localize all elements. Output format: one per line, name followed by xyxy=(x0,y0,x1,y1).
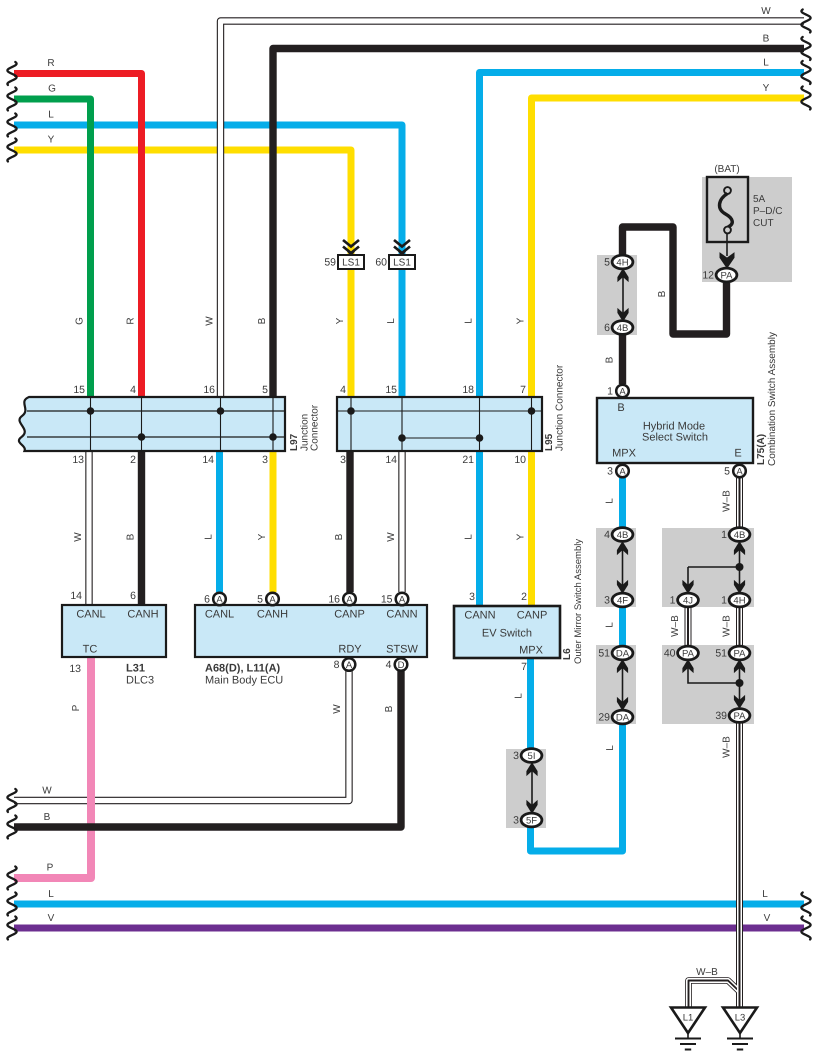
pin circle A Hybrid 3 xyxy=(616,465,629,478)
pin number L97 15 xyxy=(73,384,85,396)
svg-text:B: B xyxy=(126,533,137,540)
svg-text:V: V xyxy=(764,913,771,924)
side label L97 xyxy=(289,433,300,451)
svg-text:2: 2 xyxy=(521,591,527,603)
svg-text:W: W xyxy=(205,316,216,326)
component text ECU CANN xyxy=(386,609,417,621)
svg-text:5: 5 xyxy=(604,257,610,269)
svg-text:4F: 4F xyxy=(617,595,628,606)
svg-text:W: W xyxy=(42,786,52,797)
squiggle right V xyxy=(801,917,810,940)
squiggle left L bottom xyxy=(7,893,16,916)
L95 upper bus bar xyxy=(338,410,541,412)
svg-text:21: 21 xyxy=(462,454,474,466)
svg-text:STSW: STSW xyxy=(386,644,418,656)
connector 4J pin 1 xyxy=(678,593,699,607)
pin number PA 40 xyxy=(664,648,676,660)
wire W-B 4J 1 to PA 40 xyxy=(685,606,692,648)
label rotated L column xyxy=(386,318,397,324)
pin number 4J 1 xyxy=(670,595,676,607)
component label L31 xyxy=(126,663,145,675)
label wire R left xyxy=(47,58,54,69)
svg-text:W: W xyxy=(332,704,343,714)
link PA40-PA51 joint down to PA39 xyxy=(683,660,745,707)
component text ECU CANL xyxy=(205,609,234,621)
svg-text:MPX: MPX xyxy=(612,448,637,460)
connector LS1 59 xyxy=(338,240,364,269)
component Main Body ECU box xyxy=(195,605,427,657)
pin number ECU 4 xyxy=(386,659,392,671)
connector 4H pin 5 xyxy=(612,255,633,269)
label rotated W-B PA39 down xyxy=(722,736,733,758)
svg-text:3: 3 xyxy=(262,454,268,466)
label wire B right xyxy=(763,34,770,45)
svg-text:W–B: W–B xyxy=(722,490,733,512)
svg-text:1: 1 xyxy=(607,386,613,398)
label rotated L column below L95 xyxy=(464,534,475,540)
connector pair link DA-DA xyxy=(618,660,628,709)
svg-text:5A: 5A xyxy=(753,194,766,205)
svg-text:DA: DA xyxy=(616,648,630,659)
svg-text:16: 16 xyxy=(328,594,340,606)
L95 junction dot col 7 upper xyxy=(528,407,536,415)
fuse lead to PA 12 xyxy=(720,234,734,268)
wire W-B branch stripe xyxy=(689,981,740,1010)
label rotated L EV to 5I xyxy=(514,693,525,699)
pin circle A Hybrid 1 xyxy=(616,385,629,398)
svg-text:A: A xyxy=(346,660,353,671)
svg-text:LS1: LS1 xyxy=(342,258,360,269)
wire W white L95 pin 14 to ECU pin 15 xyxy=(398,451,405,592)
component text TC CANH xyxy=(127,609,158,621)
svg-text:13: 13 xyxy=(72,454,84,466)
svg-text:LS1: LS1 xyxy=(393,258,411,269)
wire Y yellow L97 pin 3 to ECU pin 5 xyxy=(270,451,277,592)
svg-text:6: 6 xyxy=(204,594,210,606)
svg-text:14: 14 xyxy=(385,454,397,466)
svg-text:CANL: CANL xyxy=(205,609,234,621)
svg-text:(BAT): (BAT) xyxy=(714,164,739,175)
svg-text:A68(D), L11(A): A68(D), L11(A) xyxy=(205,663,281,675)
L95 internal column 15-14 xyxy=(401,398,403,450)
pin number Hybrid 3 xyxy=(607,466,613,478)
label rotated W-B pin5 to 4B xyxy=(722,490,733,512)
svg-text:4: 4 xyxy=(386,659,392,671)
pin number L95 7 xyxy=(520,384,526,396)
L97 internal column 16-14 xyxy=(220,398,222,450)
wire P pink TC pin 13 down to left edge xyxy=(14,657,91,878)
pin number LS1 59 xyxy=(324,257,336,269)
svg-text:PA: PA xyxy=(734,648,747,659)
svg-text:Y: Y xyxy=(516,317,527,324)
L97 upper bus bar xyxy=(27,410,284,412)
label rotated B column xyxy=(257,317,268,324)
svg-text:3: 3 xyxy=(513,750,519,762)
wire L blue bottom full-width horizontal xyxy=(14,901,804,908)
label rotated Y column xyxy=(335,317,346,324)
wire W white top horizontal to L97 pin 16 xyxy=(221,21,805,397)
L97 junction dot col 15 upper xyxy=(87,407,95,415)
side label Combination Switch Assembly xyxy=(767,332,778,466)
label rotated W-B 4J to PA xyxy=(670,615,681,637)
junction connector L97 body xyxy=(19,397,285,451)
svg-text:B: B xyxy=(617,402,624,414)
svg-text:A: A xyxy=(619,386,626,397)
pin number ECU 16 xyxy=(328,594,340,606)
connector LS1 60 xyxy=(389,240,415,269)
svg-text:CUT: CUT xyxy=(753,218,774,229)
svg-text:W–B: W–B xyxy=(696,967,718,978)
wire W white ECU pin 8 RDY down to left edge xyxy=(14,671,349,801)
label wire Y left xyxy=(48,135,55,146)
label wire W bottom left xyxy=(42,786,52,797)
svg-text:CANP: CANP xyxy=(517,610,548,622)
svg-text:L75(A): L75(A) xyxy=(756,434,767,465)
svg-text:L1: L1 xyxy=(683,1013,694,1024)
label rotated B column below L95 xyxy=(334,533,345,540)
wire B black L95 pin 3 to ECU pin 16 xyxy=(346,451,353,592)
pin number ECU 5 xyxy=(257,594,263,606)
svg-text:59: 59 xyxy=(324,257,336,269)
pin number L95 15 xyxy=(385,384,397,396)
component Hybrid Mode Select Switch box xyxy=(597,398,753,463)
svg-text:A: A xyxy=(399,594,406,605)
pin number 4B 4 xyxy=(604,529,610,541)
connector 4B pin 1 xyxy=(729,528,750,542)
svg-text:3: 3 xyxy=(340,454,346,466)
L95 internal column 7-10 xyxy=(531,398,533,450)
component text Hybrid E xyxy=(734,448,741,460)
svg-text:L: L xyxy=(386,318,397,324)
pin number 4H 5 xyxy=(604,257,610,269)
svg-text:3: 3 xyxy=(469,591,475,603)
squiggle left B xyxy=(7,816,16,839)
label rotated B ECU STSW xyxy=(384,705,395,712)
squiggle right W xyxy=(801,10,810,33)
connector PA pin 51 xyxy=(729,646,750,660)
label fuse CUT xyxy=(753,218,774,229)
label fuse 5A xyxy=(753,194,766,205)
svg-text:B: B xyxy=(605,356,616,363)
svg-text:4B: 4B xyxy=(617,323,629,334)
pin number 4B 6 xyxy=(604,322,610,334)
svg-text:4B: 4B xyxy=(617,530,629,541)
pin number L97 4 xyxy=(130,384,136,396)
component text EV Switch xyxy=(482,628,532,640)
svg-text:4H: 4H xyxy=(616,257,628,268)
svg-text:A: A xyxy=(736,466,743,477)
svg-text:39: 39 xyxy=(715,710,727,722)
wire W white L97 pin 13 to TC pin 14 xyxy=(85,451,92,605)
pin number L97 5 xyxy=(262,384,268,396)
pin number L95 3 xyxy=(340,454,346,466)
side label L75(A) xyxy=(756,434,767,465)
svg-text:CANP: CANP xyxy=(334,609,365,621)
svg-text:16: 16 xyxy=(203,384,215,396)
label rotated B battery loop xyxy=(657,290,668,297)
pin circle A ECU 6 xyxy=(213,593,226,606)
pin number L97 2 xyxy=(130,454,136,466)
ground L1 xyxy=(671,1008,705,1050)
svg-text:1: 1 xyxy=(721,529,727,541)
wire V violet bottom full-width horizontal xyxy=(14,925,804,932)
side label L95 Junction Connector xyxy=(555,364,566,451)
svg-text:1: 1 xyxy=(721,595,727,607)
svg-text:W–B: W–B xyxy=(722,615,733,637)
svg-text:P: P xyxy=(47,863,54,874)
label wire L left xyxy=(48,110,54,121)
connector 5I pin 3 xyxy=(521,749,542,763)
svg-text:7: 7 xyxy=(520,384,526,396)
svg-text:L31: L31 xyxy=(126,663,145,675)
label BAT xyxy=(714,164,739,175)
pin number L97 14 xyxy=(202,454,214,466)
svg-text:R: R xyxy=(47,58,54,69)
svg-text:CANH: CANH xyxy=(127,609,158,621)
svg-text:L3: L3 xyxy=(735,1013,746,1024)
svg-text:L: L xyxy=(48,889,54,900)
svg-text:1: 1 xyxy=(670,595,676,607)
pin number 5I 3 xyxy=(513,750,519,762)
pin circle A ECU 16 xyxy=(343,593,356,606)
wire L blue L97 pin 14 to ECU pin 6 xyxy=(216,451,223,592)
wire Y yellow left horizontal to L95 pin 4 xyxy=(14,150,351,397)
svg-text:Y: Y xyxy=(257,533,268,540)
pin number Hybrid 5 xyxy=(724,466,730,478)
pin number DA 51 xyxy=(598,648,610,660)
svg-text:6: 6 xyxy=(604,322,610,334)
connector pair link 4H-4B xyxy=(618,269,628,320)
connector 4F pin 3 xyxy=(612,593,633,607)
component label Main Body ECU xyxy=(205,675,283,687)
svg-text:3: 3 xyxy=(513,815,519,827)
svg-text:Combination Switch Assembly: Combination Switch Assembly xyxy=(767,332,778,466)
svg-text:L95: L95 xyxy=(544,433,555,451)
svg-text:W–B: W–B xyxy=(722,736,733,758)
label wire G left xyxy=(48,84,56,95)
squiggle left Y xyxy=(7,139,16,162)
svg-text:Outer Mirror Switch Assembly: Outer Mirror Switch Assembly xyxy=(573,539,584,664)
pin number TC 14 xyxy=(70,590,82,602)
pin number 5F 3 xyxy=(513,815,519,827)
L97 junction dot col 16 upper xyxy=(217,407,225,415)
svg-text:L: L xyxy=(204,534,215,540)
squiggle left R xyxy=(7,62,16,85)
L97 lower bus bar xyxy=(27,436,284,438)
squiggle right L top xyxy=(801,61,810,84)
svg-text:G: G xyxy=(75,317,86,325)
wire B black ECU pin 4 STSW down to left edge xyxy=(14,671,401,827)
svg-text:DA: DA xyxy=(616,712,630,723)
svg-text:A: A xyxy=(216,594,223,605)
pin number PA 51 xyxy=(715,648,727,660)
pin number ECU 8 xyxy=(334,659,340,671)
wire Y yellow top right horizontal to L95 pin 7 xyxy=(532,98,805,397)
wire L blue left horizontal to L95 pin 15 xyxy=(14,125,402,397)
svg-text:15: 15 xyxy=(385,384,397,396)
component text Hybrid Mode xyxy=(643,421,705,433)
shield grey box BAT area xyxy=(702,177,792,282)
svg-text:D: D xyxy=(398,660,405,671)
connector PA pin 39 xyxy=(729,709,750,723)
shield grey box PA-PA-PA right group xyxy=(662,645,754,724)
L97 internal column 15-13 xyxy=(90,398,92,450)
label rotated L loop right xyxy=(605,745,616,751)
pin number PA 39 xyxy=(715,710,727,722)
side label L97 Connector xyxy=(310,404,321,451)
pin number L95 18 xyxy=(462,384,474,396)
pin number 4B 1 xyxy=(721,529,727,541)
wire L blue EV Switch pin 7 to 5I xyxy=(527,658,534,752)
squiggle left P xyxy=(7,867,16,890)
label wire B bottom left xyxy=(44,812,51,823)
pin number 4H 1 xyxy=(721,595,727,607)
pin number ECU 15 xyxy=(381,594,393,606)
label rotated W-B 4H to PA xyxy=(722,615,733,637)
label W-B at ground branch xyxy=(696,967,718,978)
junction connector L95 body xyxy=(337,397,542,451)
L97 junction dot col 5 lower xyxy=(269,433,277,441)
side label L97 Junction xyxy=(300,414,311,451)
L95 junction dot col 18 lower xyxy=(476,434,484,442)
svg-text:2: 2 xyxy=(130,454,136,466)
shield grey box DA-DA left column xyxy=(596,645,636,724)
svg-text:V: V xyxy=(48,913,55,924)
wire W-B Hybrid pin 5 E to 4B 1 xyxy=(736,478,743,529)
svg-text:A: A xyxy=(619,466,626,477)
svg-text:8: 8 xyxy=(334,659,340,671)
wire W-B 4H 1 to PA 51 xyxy=(736,606,743,648)
connector pair link 4B-4F xyxy=(618,542,628,592)
pin number L95 4 xyxy=(340,384,346,396)
pin number L95 21 xyxy=(462,454,474,466)
label wire W right xyxy=(761,6,771,17)
pin number 4F 3 xyxy=(604,595,610,607)
svg-text:CANL: CANL xyxy=(76,609,105,621)
pin number L97 3 xyxy=(262,454,268,466)
svg-text:L: L xyxy=(464,534,475,540)
component text Hybrid MPX xyxy=(612,448,637,460)
side label L6 xyxy=(562,648,573,660)
link 4B-1 branch to 4J and 4H xyxy=(683,542,745,593)
pin number EV 7 xyxy=(521,661,527,673)
label rotated P TC 13 xyxy=(71,704,82,711)
component text EV MPX xyxy=(519,645,544,657)
svg-text:CANH: CANH xyxy=(257,609,288,621)
component text ECU RDY xyxy=(338,644,362,656)
component text Select Switch xyxy=(642,432,708,444)
svg-text:4: 4 xyxy=(604,529,610,541)
L95 junction dot col 4 upper xyxy=(347,407,355,415)
label wire L right xyxy=(763,58,769,69)
connector pair link 5I-5F xyxy=(527,763,537,812)
svg-text:Y: Y xyxy=(48,135,55,146)
svg-text:L: L xyxy=(514,693,525,699)
L97 internal column 5-3 xyxy=(272,398,274,450)
svg-text:7: 7 xyxy=(521,661,527,673)
shield grey box 4B-4F left column xyxy=(596,528,636,607)
component text ECU CANP xyxy=(334,609,365,621)
wire Y yellow L95 pin 10 to EV Switch pin 2 xyxy=(528,451,535,606)
squiggle left G xyxy=(7,88,16,111)
svg-text:29: 29 xyxy=(598,712,610,724)
wire B black 4B 6 down to Hybrid Mode pin 1 xyxy=(619,334,626,384)
ground L3 xyxy=(723,1008,757,1050)
squiggle right Y xyxy=(801,87,810,110)
pin number EV 3 xyxy=(469,591,475,603)
label rotated B column below L97 xyxy=(126,533,137,540)
label wire L bottom right xyxy=(762,889,768,900)
L97 junction dot col 4 lower xyxy=(138,433,146,441)
svg-text:40: 40 xyxy=(664,648,676,660)
svg-text:W: W xyxy=(73,532,84,542)
component text EV CANP xyxy=(517,610,548,622)
svg-text:Connector: Connector xyxy=(310,404,321,451)
wire W-B ground branch white core xyxy=(689,981,740,1010)
svg-text:14: 14 xyxy=(202,454,214,466)
label rotated L 4F to DA xyxy=(605,622,616,628)
svg-text:RDY: RDY xyxy=(338,644,362,656)
wire B black L97 pin 2 to TC pin 6 xyxy=(138,451,145,605)
connector 5F pin 3 xyxy=(521,813,542,827)
component text TC CANL xyxy=(76,609,105,621)
label rotated Y column below L95 xyxy=(516,533,527,540)
svg-text:4: 4 xyxy=(340,384,346,396)
label rotated Y column below L97 xyxy=(257,533,268,540)
svg-text:13: 13 xyxy=(69,663,81,675)
pin number L97 16 xyxy=(203,384,215,396)
svg-text:L: L xyxy=(605,498,616,504)
svg-text:5F: 5F xyxy=(526,815,537,826)
svg-text:Y: Y xyxy=(516,533,527,540)
svg-text:L97: L97 xyxy=(289,433,300,451)
svg-text:W: W xyxy=(386,532,397,542)
svg-text:P: P xyxy=(71,704,82,711)
svg-text:15: 15 xyxy=(73,384,85,396)
svg-text:5: 5 xyxy=(724,466,730,478)
svg-text:12: 12 xyxy=(702,270,714,282)
svg-text:4B: 4B xyxy=(734,530,746,541)
svg-text:3: 3 xyxy=(604,595,610,607)
svg-text:4: 4 xyxy=(130,384,136,396)
label wire L bottom left xyxy=(48,889,54,900)
shield grey box 4H-4B pair xyxy=(597,255,637,335)
pin number L95 14 xyxy=(385,454,397,466)
label wire V bottom right xyxy=(764,913,771,924)
pin circle A ECU 5 xyxy=(266,593,279,606)
svg-text:4J: 4J xyxy=(683,595,693,606)
svg-text:L: L xyxy=(763,58,769,69)
svg-text:W: W xyxy=(761,6,771,17)
svg-text:MPX: MPX xyxy=(519,645,544,657)
svg-text:A: A xyxy=(269,594,276,605)
label rotated W column below L97 xyxy=(73,532,84,542)
svg-text:4H: 4H xyxy=(733,595,745,606)
svg-text:Main Body ECU: Main Body ECU xyxy=(205,675,283,687)
component text TC xyxy=(83,644,98,656)
shield grey box 4B-4J-4H right group xyxy=(662,528,754,607)
component text ECU CANH xyxy=(257,609,288,621)
svg-text:60: 60 xyxy=(375,257,387,269)
component label DLC3 xyxy=(126,675,154,687)
label rotated Y column 7 xyxy=(516,317,527,324)
side label Outer Mirror Switch Assembly xyxy=(573,539,584,664)
svg-text:EV Switch: EV Switch xyxy=(482,628,532,640)
wire G green left horizontal to L97 pin 15 xyxy=(14,99,91,397)
pin number L95 10 xyxy=(514,454,526,466)
label rotated W ECU RDY xyxy=(332,704,343,714)
pin circle A ECU 15 xyxy=(396,593,409,606)
